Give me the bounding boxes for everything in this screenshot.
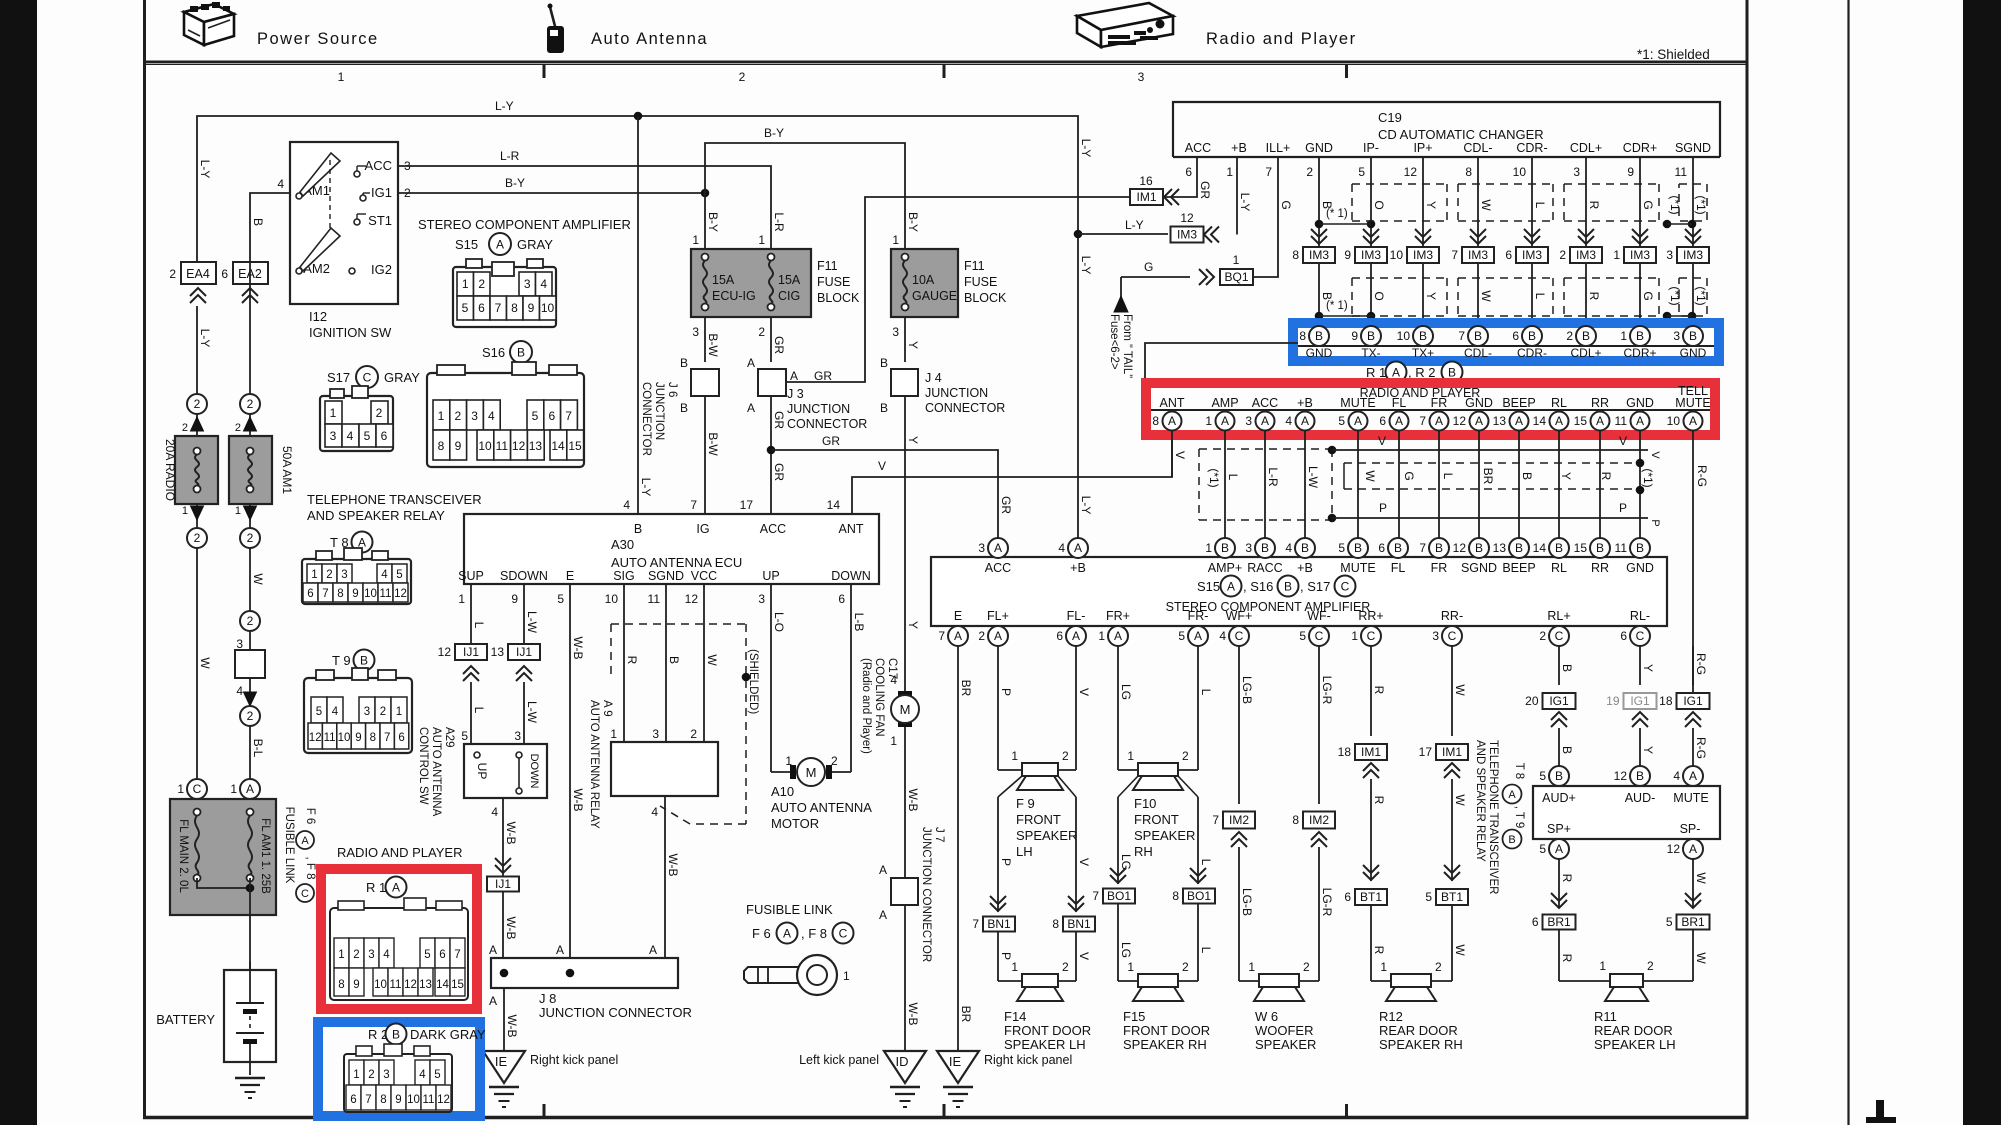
svg-text:B-Y: B-Y [764,126,784,140]
svg-text:12: 12 [437,1094,450,1106]
svg-text:BLOCK: BLOCK [964,291,1007,305]
svg-text:IM1: IM1 [1136,190,1156,204]
svg-text:A: A [1689,769,1697,783]
svg-text:BATTERY: BATTERY [156,1012,215,1027]
svg-text:ST1: ST1 [368,213,392,228]
svg-text:B: B [680,356,688,370]
svg-text:C: C [1636,629,1645,643]
svg-text:FL MAIN 2. 0L: FL MAIN 2. 0L [177,819,189,893]
svg-text:B: B [1560,746,1574,754]
svg-text:3: 3 [892,325,899,339]
svg-text:L: L [1533,202,1547,209]
svg-text:W-B: W-B [666,853,680,876]
svg-text:1: 1 [1011,960,1018,974]
svg-text:Y: Y [906,341,920,349]
svg-text:6: 6 [1532,915,1539,929]
svg-text:W: W [1453,684,1467,696]
svg-text:2: 2 [169,267,176,281]
svg-text:8: 8 [338,979,344,991]
svg-text:7: 7 [1451,248,1458,262]
svg-text:12: 12 [1614,769,1628,783]
svg-text:14: 14 [827,498,841,512]
svg-text:F 6: F 6 [304,808,316,825]
svg-text:IM3: IM3 [1522,248,1542,262]
svg-text:1: 1 [692,233,699,247]
svg-text:C: C [301,888,309,900]
svg-text:EA4: EA4 [186,267,210,281]
svg-text:W: W [251,573,265,585]
svg-text:A: A [1392,366,1400,380]
svg-text:IG1: IG1 [1630,694,1650,708]
svg-text:B: B [1301,541,1309,555]
svg-text:V: V [1077,952,1091,960]
svg-text:CDR+: CDR+ [1623,141,1657,155]
svg-text:2: 2 [380,706,386,718]
svg-text:A: A [879,908,887,922]
svg-text:B: B [880,401,888,415]
svg-text:12: 12 [512,439,526,453]
svg-text:4: 4 [383,949,390,961]
svg-text:CONNECTOR: CONNECTOR [787,417,867,431]
svg-text:11: 11 [1615,541,1628,555]
svg-text:C: C [193,782,202,796]
svg-text:B: B [1560,664,1574,672]
svg-text:4: 4 [623,498,630,512]
svg-text:FRONT DOOR: FRONT DOOR [1004,1023,1091,1038]
svg-text:10: 10 [407,1094,420,1106]
svg-text:3: 3 [364,706,370,718]
svg-text:1: 1 [1599,959,1606,973]
svg-text:12: 12 [1404,165,1418,179]
svg-text:JUNCTION: JUNCTION [925,386,988,400]
svg-text:1: 1 [1127,960,1134,974]
svg-text:FL+: FL+ [987,609,1009,623]
svg-text:5: 5 [424,949,430,961]
svg-text:1: 1 [890,734,897,748]
svg-text:GR: GR [1198,181,1212,199]
svg-text:9: 9 [1627,165,1634,179]
svg-text:AMP: AMP [1211,396,1238,410]
svg-text:JUNCTION CONNECTOR: JUNCTION CONNECTOR [539,1005,692,1020]
svg-text:RL+: RL+ [1547,609,1570,623]
svg-text:5: 5 [1178,629,1185,643]
svg-text:ANT: ANT [1160,396,1185,410]
svg-text:RR: RR [1591,396,1609,410]
svg-text:2: 2 [739,70,746,84]
svg-text:A: A [1689,414,1697,428]
svg-text:JUNCTION: JUNCTION [787,402,850,416]
svg-text:W: W [1479,199,1493,211]
svg-text:P: P [999,858,1013,866]
svg-text:BT1: BT1 [1360,890,1382,904]
svg-text:A: A [1508,789,1516,801]
svg-text:4: 4 [491,805,498,819]
svg-text:5: 5 [1539,769,1546,783]
svg-text:1: 1 [785,754,792,768]
svg-text:F11: F11 [964,259,985,273]
svg-text:BR: BR [959,1006,973,1023]
svg-text:+B: +B [1070,561,1086,575]
svg-text:IM3: IM3 [1309,248,1329,262]
svg-text:DARK GRAY: DARK GRAY [410,1027,486,1042]
svg-text:5: 5 [1539,842,1546,856]
svg-text:L-Y: L-Y [495,99,514,113]
svg-text:C: C [1315,629,1324,643]
svg-text:4: 4 [1219,629,1226,643]
svg-text:IM3: IM3 [1468,248,1488,262]
svg-text:IJ1: IJ1 [516,645,532,659]
svg-text:1: 1 [338,70,345,84]
svg-text:6: 6 [307,588,313,600]
svg-text:S17: S17 [327,370,350,385]
svg-text:B: B [1582,329,1590,343]
svg-text:5: 5 [434,1069,440,1081]
svg-text:9: 9 [355,732,361,744]
svg-text:I12: I12 [309,309,327,324]
svg-text:7: 7 [495,301,502,315]
svg-text:B-W: B-W [706,432,720,456]
svg-text:7: 7 [384,732,390,744]
svg-text:RR+: RR+ [1358,609,1383,623]
svg-text:6: 6 [398,732,404,744]
svg-text:B: B [1636,329,1644,343]
svg-text:IG1: IG1 [371,185,392,200]
svg-text:9: 9 [352,588,358,600]
svg-text:FL AM1 1. 25B: FL AM1 1. 25B [259,818,271,894]
svg-text:A: A [1475,414,1483,428]
svg-text:1: 1 [396,706,402,718]
svg-text:R: R [1587,292,1601,301]
svg-text:B: B [1367,329,1375,343]
svg-text:4: 4 [651,805,658,819]
svg-text:GR: GR [772,463,786,481]
svg-text:L-R: L-R [772,212,786,232]
svg-text:19: 19 [1606,694,1620,708]
svg-text:1: 1 [1248,960,1255,974]
svg-text:20A RADIO: 20A RADIO [163,439,177,501]
svg-text:ACC: ACC [760,522,786,536]
svg-text:9: 9 [1344,248,1351,262]
svg-text:A: A [1221,414,1229,428]
svg-text:6: 6 [221,267,228,281]
svg-text:AMP+: AMP+ [1208,561,1242,575]
svg-text:DOWN: DOWN [831,569,871,583]
svg-text:W-B: W-B [571,788,585,811]
svg-text:BLOCK: BLOCK [817,291,860,305]
svg-text:FRONT DOOR: FRONT DOOR [1123,1023,1210,1038]
svg-text:BEEP: BEEP [1502,561,1535,575]
svg-text:Power Source: Power Source [257,30,379,48]
svg-text:1: 1 [438,409,445,423]
svg-text:6: 6 [1620,629,1627,643]
svg-text:7: 7 [1458,329,1465,343]
svg-text:UP: UP [762,569,779,583]
svg-text:ID: ID [896,1054,909,1069]
svg-text:SPEAKER: SPEAKER [1016,828,1077,843]
svg-text:3: 3 [524,277,531,291]
svg-text:CIG: CIG [778,289,800,303]
svg-text:6: 6 [1344,890,1351,904]
svg-text:L: L [1199,947,1213,954]
svg-text:W-B: W-B [505,1014,519,1037]
svg-text:FL: FL [1392,396,1407,410]
svg-text:10: 10 [374,979,387,991]
svg-text:3: 3 [383,1069,389,1081]
svg-text:SDOWN: SDOWN [500,569,548,583]
svg-text:11: 11 [496,439,509,453]
svg-text:9: 9 [1351,329,1358,343]
svg-text:L-W: L-W [525,701,539,724]
svg-text:A: A [747,356,755,370]
svg-text:3: 3 [1573,165,1580,179]
svg-text:+B: +B [1231,141,1247,155]
svg-text:9: 9 [455,439,462,453]
svg-text:LH: LH [1016,844,1033,859]
svg-text:G: G [1641,200,1655,209]
svg-text:C: C [363,371,372,385]
svg-text:T 8: T 8 [1513,763,1525,779]
svg-text:MUTE: MUTE [1340,561,1375,575]
svg-text:A: A [392,881,400,895]
svg-text:10: 10 [338,732,351,744]
svg-text:12: 12 [685,592,699,606]
svg-text:SIG: SIG [613,569,635,583]
svg-text:B: B [1394,541,1402,555]
svg-text:B: B [360,654,368,668]
svg-text:SGND: SGND [1675,141,1711,155]
svg-text:B-Y: B-Y [505,176,525,190]
svg-text:A: A [1168,414,1176,428]
svg-text:C: C [1367,629,1376,643]
svg-text:L-W: L-W [525,611,539,634]
svg-text:17: 17 [740,498,754,512]
svg-text:FUSIBLE LINK: FUSIBLE LINK [283,807,295,884]
svg-text:R: R [1599,472,1613,481]
svg-text:A: A [994,629,1002,643]
svg-text:A: A [1354,414,1362,428]
svg-text:3: 3 [1673,329,1680,343]
svg-text:B: B [1520,472,1534,480]
svg-text:W 6: W 6 [1255,1009,1278,1024]
svg-text:1: 1 [311,569,317,581]
svg-text:BN1: BN1 [987,917,1011,931]
svg-text:A: A [246,782,254,796]
svg-text:8: 8 [370,732,376,744]
svg-text:7: 7 [1092,889,1099,903]
svg-text:B: B [1508,834,1515,846]
svg-text:3: 3 [692,325,699,339]
svg-text:8: 8 [380,1094,386,1106]
svg-text:6: 6 [1378,541,1385,555]
svg-text:2: 2 [831,754,838,768]
svg-text:1: 1 [1233,253,1240,267]
svg-text:5: 5 [1338,414,1345,428]
svg-text:L: L [1226,474,1240,481]
svg-text:IM3: IM3 [1177,228,1197,242]
svg-text:R-G: R-G [1694,653,1708,675]
svg-text:8: 8 [337,588,343,600]
svg-text:GRAY: GRAY [384,370,420,385]
svg-text:, F 8: , F 8 [801,926,827,941]
svg-text:SPEAKER RH: SPEAKER RH [1123,1037,1207,1052]
svg-text:3: 3 [978,541,985,555]
svg-text:12: 12 [404,979,417,991]
svg-text:VCC: VCC [691,569,717,583]
svg-text:IE: IE [949,1054,962,1069]
svg-text:IP+: IP+ [1413,141,1432,155]
svg-text:RACC: RACC [1247,561,1282,575]
svg-text:, T 9: , T 9 [1513,806,1525,829]
svg-text:5: 5 [1666,915,1673,929]
svg-text:P: P [1649,519,1661,526]
svg-text:GRAY: GRAY [517,237,553,252]
svg-text:RH: RH [1134,844,1153,859]
svg-text:F14: F14 [1004,1009,1026,1024]
svg-text:2: 2 [182,422,188,434]
svg-text:4: 4 [236,684,243,698]
svg-text:ACC: ACC [985,561,1011,575]
svg-text:IP-: IP- [1363,141,1379,155]
svg-text:B: B [1315,329,1323,343]
svg-text:4: 4 [419,1069,426,1081]
svg-text:F 9: F 9 [1016,796,1035,811]
svg-text:SPEAKER LH: SPEAKER LH [1004,1037,1086,1052]
svg-text:B: B [880,356,888,370]
svg-text:CDR-: CDR- [1517,346,1547,360]
svg-text:B: B [1474,329,1482,343]
svg-text:8: 8 [1465,165,1472,179]
svg-text:2: 2 [1435,960,1442,974]
svg-text:7: 7 [972,917,979,931]
svg-text:+B: +B [1297,561,1313,575]
svg-text:A10: A10 [771,784,794,799]
svg-text:C: C [1235,629,1244,643]
svg-text:A: A [1227,580,1235,594]
svg-text:15: 15 [568,439,582,453]
svg-text:GND: GND [1626,561,1654,575]
svg-text:10: 10 [478,439,492,453]
svg-text:15: 15 [451,979,464,991]
svg-text:6: 6 [1056,629,1063,643]
svg-text:REAR DOOR: REAR DOOR [1379,1023,1458,1038]
svg-text:W: W [1453,944,1467,956]
svg-text:B: B [1419,329,1427,343]
svg-text:50A AM1: 50A AM1 [280,446,294,494]
svg-text:V: V [1619,434,1627,448]
svg-text:A: A [1515,414,1523,428]
svg-text:13: 13 [419,979,432,991]
svg-text:Right kick panel: Right kick panel [530,1053,618,1067]
svg-text:7: 7 [454,949,460,961]
svg-text:B: B [667,656,681,664]
svg-text:1: 1 [1380,960,1387,974]
svg-text:1: 1 [1613,248,1620,262]
svg-text:SGND: SGND [648,569,684,583]
svg-text:A: A [649,943,657,957]
svg-text:W: W [1363,470,1377,482]
svg-text:14: 14 [436,979,449,991]
svg-text:SUP: SUP [458,569,484,583]
svg-text:B: B [680,401,688,415]
svg-text:V: V [1077,858,1091,866]
svg-text:9: 9 [353,979,359,991]
svg-text:1: 1 [1226,165,1233,179]
svg-text:A: A [556,943,564,957]
svg-text:AUTO ANTENNA ECU: AUTO ANTENNA ECU [611,555,742,570]
svg-text:M: M [806,765,817,780]
svg-text:R: R [1372,946,1386,955]
svg-text:B: B [1636,769,1644,783]
svg-text:A: A [747,401,755,415]
svg-text:ACC: ACC [1185,141,1211,155]
svg-text:B-Y: B-Y [706,212,720,232]
svg-text:A: A [1261,414,1269,428]
svg-text:E: E [566,569,574,583]
svg-text:7: 7 [690,498,697,512]
svg-text:5: 5 [1358,165,1365,179]
svg-text:A: A [1636,414,1644,428]
svg-text:A: A [954,629,962,643]
svg-text:2: 2 [235,422,241,434]
svg-text:IG1: IG1 [1549,694,1569,708]
svg-text:1: 1 [182,505,188,517]
svg-text:3: 3 [1245,414,1252,428]
svg-text:5: 5 [1299,629,1306,643]
svg-text:IM3: IM3 [1576,248,1596,262]
svg-text:GR: GR [999,496,1013,514]
svg-text:C: C [839,927,848,941]
svg-text:GND: GND [1306,346,1333,360]
svg-text:2: 2 [194,397,201,411]
svg-text:R-G: R-G [1694,737,1708,759]
svg-text:BR1: BR1 [1681,915,1705,929]
svg-text:R: R [1560,874,1574,883]
svg-text:A: A [1395,414,1403,428]
svg-text:(SHIELDED): (SHIELDED) [747,649,759,714]
svg-text:7: 7 [1212,813,1219,827]
svg-text:O: O [1372,200,1386,209]
svg-text:IG1: IG1 [1683,694,1703,708]
svg-text:IM3: IM3 [1413,248,1433,262]
svg-text:3: 3 [236,637,243,651]
svg-text:7: 7 [322,588,328,600]
svg-text:5: 5 [557,592,564,606]
svg-text:(*1): (*1) [1641,468,1655,487]
svg-text:3: 3 [330,429,337,443]
svg-text:LG-B: LG-B [1240,888,1254,916]
svg-text:IJ1: IJ1 [495,877,511,891]
svg-text:R: R [1372,686,1386,695]
svg-text:BT1: BT1 [1441,890,1463,904]
svg-text:2: 2 [1182,749,1189,763]
svg-text:GR: GR [772,411,786,429]
svg-text:3: 3 [652,727,659,741]
svg-text:(*1): (*1) [1668,286,1682,305]
svg-text:Y: Y [1641,664,1655,672]
svg-text:LG-R: LG-R [1320,676,1334,705]
svg-text:A: A [1114,629,1122,643]
svg-text:4: 4 [1673,769,1680,783]
svg-text:B: B [251,218,265,226]
svg-text:1: 1 [1620,329,1627,343]
svg-text:11: 11 [1615,414,1628,428]
svg-text:A: A [1194,629,1202,643]
svg-text:F10: F10 [1134,796,1156,811]
svg-text:RADIO AND PLAYER: RADIO AND PLAYER [1360,386,1481,400]
svg-text:IJ1: IJ1 [463,645,479,659]
svg-text:6: 6 [548,409,555,423]
svg-text:2: 2 [376,406,383,420]
